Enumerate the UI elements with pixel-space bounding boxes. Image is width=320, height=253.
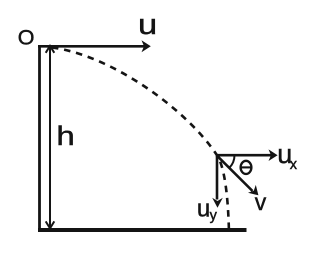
h bottom chevron arrowhead — [46, 221, 55, 228]
trajectory (dashed curve) — [52, 48, 229, 234]
label theta — [241, 161, 252, 174]
svg-text:O: O — [18, 26, 35, 50]
vector u_x arrow shaft — [217, 154, 272, 157]
svg-text:x: x — [290, 157, 298, 173]
vector v arrow shaft — [217, 155, 253, 191]
vector u arrowhead — [142, 40, 151, 52]
svg-text:u: u — [197, 195, 210, 222]
h top chevron arrowhead — [46, 46, 55, 53]
vector u arrow (shaft) — [38, 45, 144, 48]
u_x arrowhead — [269, 149, 278, 161]
ground line — [38, 228, 247, 232]
svg-text:y: y — [210, 208, 218, 224]
vector u_y arrow shaft — [216, 155, 219, 199]
wall (left vertical line) — [38, 45, 41, 230]
u_y arrowhead — [212, 198, 223, 208]
angle arc theta — [229, 155, 234, 168]
svg-text:v: v — [255, 189, 267, 215]
svg-text:h: h — [56, 121, 74, 151]
dimension line h shaft — [49, 47, 51, 228]
svg-text:u: u — [138, 9, 157, 41]
v arrowhead — [248, 185, 258, 195]
